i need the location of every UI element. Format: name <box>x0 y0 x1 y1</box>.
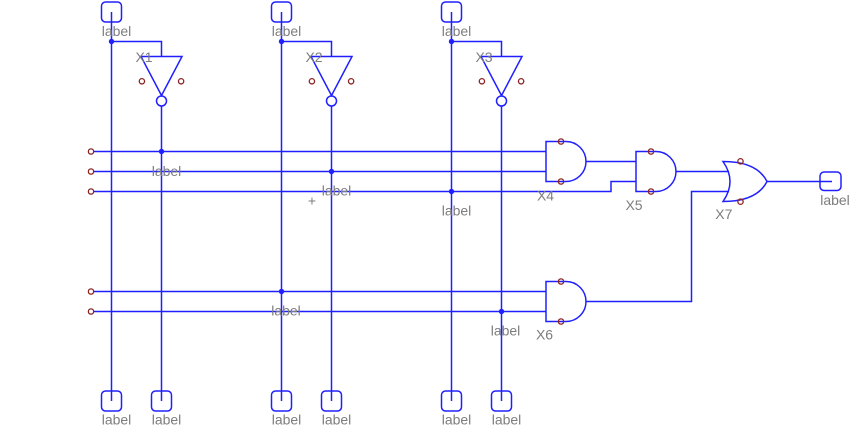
svg-text:label: label <box>820 192 850 208</box>
svg-text:label: label <box>322 412 352 428</box>
svg-text:X7: X7 <box>715 206 732 222</box>
svg-text:X2: X2 <box>305 49 322 65</box>
svg-text:X6: X6 <box>536 327 553 343</box>
svg-text:X5: X5 <box>625 197 642 213</box>
svg-text:label: label <box>491 323 521 339</box>
svg-text:X4: X4 <box>537 188 554 204</box>
svg-text:label: label <box>272 412 302 428</box>
svg-text:+: + <box>308 193 316 209</box>
svg-text:label: label <box>492 412 522 428</box>
svg-text:X1: X1 <box>135 49 152 65</box>
svg-text:label: label <box>272 23 302 39</box>
svg-text:label: label <box>152 163 182 179</box>
svg-text:label: label <box>442 412 472 428</box>
svg-text:label: label <box>322 183 352 199</box>
svg-text:label: label <box>271 303 301 319</box>
svg-text:label: label <box>102 412 132 428</box>
svg-text:X3: X3 <box>475 49 492 65</box>
svg-text:label: label <box>442 23 472 39</box>
svg-text:label: label <box>442 203 472 219</box>
svg-text:label: label <box>102 23 132 39</box>
svg-text:label: label <box>152 412 182 428</box>
